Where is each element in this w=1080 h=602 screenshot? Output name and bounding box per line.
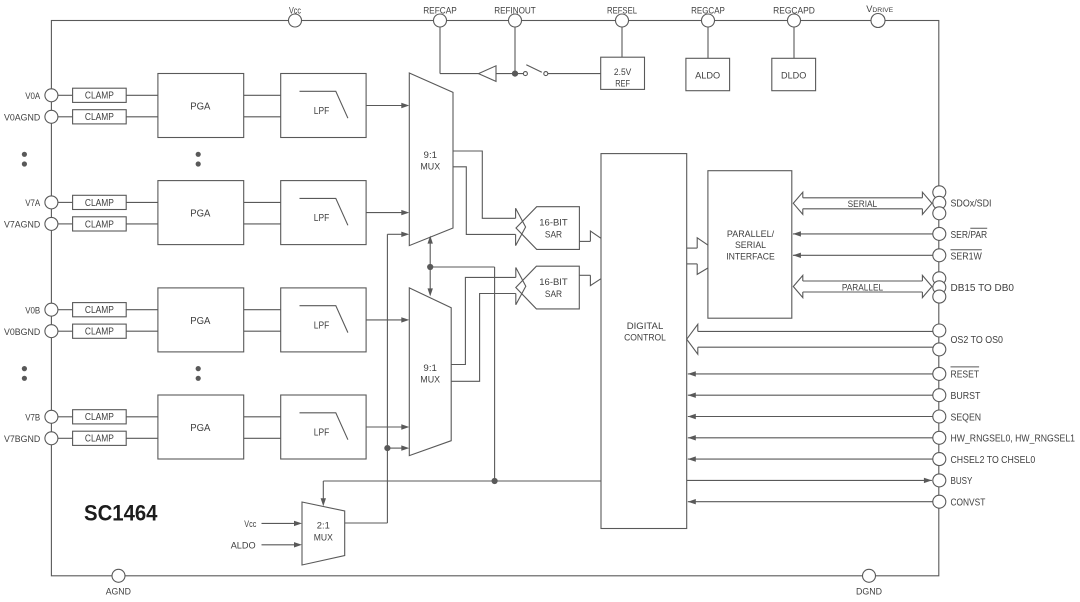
pin REFCAP (top): [423, 5, 457, 27]
pin REGCAPD (top): [773, 5, 815, 27]
wire 2:1 MUX output: [345, 522, 388, 524]
svg-text:PGA: PGA: [190, 102, 210, 113]
wire REGCAPD to DLDO: [793, 27, 795, 58]
junction REFINOUT node: [512, 71, 518, 77]
pin DGND: [856, 569, 882, 597]
wire V0AGND to clamp: [58, 116, 73, 118]
wire LPF channel 0A output to 9:1 MUX: [366, 105, 402, 107]
wire rail into 9:1 MUX A (9th input): [387, 233, 402, 235]
wire V7AGND to clamp: [58, 223, 73, 225]
svg-text:DIGITAL: DIGITAL: [627, 321, 664, 332]
svg-text:PGA: PGA: [190, 316, 210, 327]
LPF block channel 0B: [281, 288, 366, 352]
ellipsis dots between PGA B blocks: [196, 366, 201, 381]
switch lever: [526, 65, 542, 73]
wire buffer to junction: [496, 73, 523, 75]
wire BUSY row: [687, 479, 932, 481]
svg-text:CLAMP: CLAMP: [85, 198, 114, 209]
svg-text:HW_RNGSEL0, HW_RNGSEL1: HW_RNGSEL0, HW_RNGSEL1: [951, 434, 1076, 445]
wire LPF channel 0B output to 9:1 MUX: [366, 319, 402, 321]
pin SER/PAR: [933, 227, 987, 241]
svg-text:16-BIT: 16-BIT: [539, 217, 568, 228]
svg-text:Vcc: Vcc: [244, 519, 256, 530]
ADC 16-BIT SAR 2: [516, 266, 580, 309]
pin V7A: [25, 196, 58, 209]
flag connector SAR1 to digital control: [590, 231, 601, 241]
svg-text:REFINOUT: REFINOUT: [494, 5, 536, 16]
svg-text:CLAMP: CLAMP: [85, 91, 114, 102]
wire PGA to LPF (lower, V7BGND): [244, 437, 281, 439]
svg-text:V0A: V0A: [25, 91, 40, 102]
svg-text:CLAMP: CLAMP: [85, 434, 114, 445]
wire clamp V0BGND to PGA: [126, 330, 158, 332]
2:1 MUX: [302, 502, 345, 565]
PGA block channel 7A: [158, 181, 244, 245]
wire PGA to LPF (lower, V0BGND): [244, 330, 281, 332]
svg-text:BUSY: BUSY: [951, 476, 973, 487]
wire PGA to LPF (upper, V0B): [244, 309, 281, 311]
svg-text:MUX: MUX: [420, 161, 440, 172]
clamp block V7BGND: [73, 431, 127, 445]
wire drop into 2:1 MUX select: [322, 481, 324, 499]
pin V7AGND: [4, 217, 58, 230]
wire LPF channel 7A output to 9:1 MUX: [366, 212, 402, 214]
svg-text:CLAMP: CLAMP: [85, 112, 114, 123]
svg-text:9:1: 9:1: [424, 150, 438, 161]
svg-text:ALDO: ALDO: [231, 540, 256, 551]
svg-text:DLDO: DLDO: [781, 71, 806, 82]
svg-text:SAR: SAR: [545, 289, 562, 300]
wire clamp V0A to PGA: [126, 94, 158, 96]
wire LPF channel 7B output to 9:1 MUX: [366, 426, 402, 428]
svg-text:V7A: V7A: [25, 198, 40, 209]
junction node between MUXes: [427, 264, 433, 270]
svg-text:2:1: 2:1: [317, 521, 330, 531]
svg-text:REF: REF: [615, 78, 630, 89]
ALDO block: [686, 58, 730, 90]
svg-text:INTERFACE: INTERFACE: [726, 251, 775, 262]
wire MUX A output 1: [453, 151, 516, 218]
svg-text:PARALLEL: PARALLEL: [842, 283, 883, 293]
svg-text:SAR: SAR: [545, 230, 562, 241]
wire clamp V7B to PGA: [126, 416, 158, 418]
pin REGCAP (top): [691, 5, 725, 27]
wire clamp V0B to PGA: [126, 309, 158, 311]
svg-text:V7B: V7B: [25, 412, 40, 423]
wire vertical riser down: [494, 267, 496, 481]
9:1 MUX B (lower multiplexer): [409, 288, 451, 456]
wire PGA to LPF (upper, V7A): [244, 201, 281, 203]
ellipsis dots between V0A and V7A pins: [22, 152, 27, 167]
pin REFSEL (top): [607, 5, 638, 27]
ADC 16-BIT SAR 1: [516, 207, 579, 250]
reference buffer amplifier: [479, 66, 497, 82]
wire V0BGND to clamp: [58, 330, 73, 332]
svg-text:V0BGND: V0BGND: [4, 327, 40, 338]
wire PGA to LPF (lower, V0AGND): [244, 116, 281, 118]
wire 2:1 MUX output rail (vertical): [386, 234, 388, 523]
svg-text:2.5V: 2.5V: [614, 67, 632, 78]
svg-text:9:1: 9:1: [423, 363, 437, 374]
wire REFINOUT down: [514, 27, 516, 74]
wire MUX B output 2: [451, 294, 516, 382]
ellipsis dots between PGA A blocks: [196, 152, 201, 167]
wire REFCAP down: [439, 27, 441, 74]
PGA block channel 0A: [158, 74, 244, 138]
pin RESET: [933, 367, 979, 381]
svg-text:CLAMP: CLAMP: [85, 412, 114, 423]
svg-text:LPF: LPF: [314, 213, 330, 224]
pin AGND: [106, 569, 131, 597]
wire SAR1 output: [579, 240, 590, 242]
svg-text:REFSEL: REFSEL: [607, 5, 638, 16]
bus arrowhead into SAR1: [516, 208, 526, 245]
svg-text:LPF: LPF: [314, 106, 330, 117]
wire MUX A output 2: [453, 167, 516, 235]
pin SDOx/SDI (3 stacked): [933, 186, 992, 220]
wire ALDO into 2:1 MUX: [262, 544, 296, 546]
DLDO block: [772, 58, 816, 90]
flag connector SAR2 to digital control: [590, 275, 601, 285]
OS2 TO OS0 bus (hollow arrow into digital control): [687, 324, 933, 354]
svg-text:V7AGND: V7AGND: [4, 220, 40, 231]
wire switch to 2.5V REF: [548, 73, 601, 75]
wire PGA to LPF (upper, V7B): [244, 416, 281, 418]
clamp block V7B: [73, 410, 127, 424]
svg-text:16-BIT: 16-BIT: [539, 277, 568, 288]
svg-text:OS2 TO OS0: OS2 TO OS0: [951, 335, 1004, 346]
wire HW_RNGSEL row: [688, 437, 933, 439]
clamp block V0B: [73, 303, 127, 317]
PGA block channel 0B: [158, 288, 244, 352]
pin BUSY: [933, 474, 973, 487]
wire clamp V7BGND to PGA: [126, 437, 158, 439]
pin SEQEN: [933, 410, 981, 423]
clamp block V7AGND: [73, 217, 127, 231]
wire PGA to LPF (upper, V0A): [244, 94, 281, 96]
svg-text:REGCAPD: REGCAPD: [773, 5, 815, 16]
LPF block channel 7B: [281, 395, 366, 459]
wire V7BGND to clamp: [58, 437, 73, 439]
ellipsis dots between V0B and V7B pins: [22, 366, 27, 381]
svg-text:PGA: PGA: [190, 209, 210, 220]
wire V7A to clamp: [58, 201, 73, 203]
chip outline border: [51, 21, 938, 576]
wire V0B to clamp: [58, 309, 73, 311]
LPF block channel 7A: [281, 181, 366, 245]
svg-text:CONTROL: CONTROL: [624, 332, 666, 343]
svg-text:ALDO: ALDO: [695, 71, 720, 82]
wire CONVST row: [688, 501, 933, 503]
2.5V REF block: [601, 57, 645, 89]
svg-text:PGA: PGA: [190, 423, 210, 434]
PARALLEL/SERIAL INTERFACE block: [708, 171, 792, 319]
clamp block V0A: [73, 88, 127, 102]
svg-text:DB15 TO DB0: DB15 TO DB0: [951, 283, 1015, 294]
wire REFSEL to 2.5V REF: [621, 27, 623, 57]
wire BURST row: [688, 394, 933, 396]
svg-text:SERIAL: SERIAL: [848, 199, 878, 209]
pin V0BGND: [4, 325, 58, 338]
svg-text:CLAMP: CLAMP: [85, 219, 114, 230]
switch contact left: [523, 72, 527, 76]
svg-text:CLAMP: CLAMP: [85, 327, 114, 338]
svg-text:V0AGND: V0AGND: [4, 112, 40, 123]
svg-text:MUX: MUX: [420, 375, 440, 386]
svg-text:AGND: AGND: [106, 586, 131, 597]
svg-text:LPF: LPF: [314, 320, 330, 331]
pin DB15 TO DB0 (3 stacked): [933, 272, 1015, 303]
wire SEQEN row: [688, 416, 933, 418]
junction on control row: [492, 478, 498, 484]
wire clamp V7AGND to PGA: [126, 223, 158, 225]
pin CONVST: [933, 495, 986, 508]
svg-text:CLAMP: CLAMP: [85, 305, 114, 316]
clamp block V7A: [73, 195, 127, 209]
wire SER1W to interface: [793, 254, 933, 256]
wire node to vertical riser: [430, 266, 494, 268]
wire between MUX A and MUX B (double-headed): [428, 236, 433, 297]
svg-text:REGCAP: REGCAP: [691, 5, 725, 16]
wire RESET row: [688, 373, 933, 375]
svg-text:V0B: V0B: [25, 305, 40, 316]
svg-text:SC1464: SC1464: [84, 500, 158, 525]
svg-text:SEQEN: SEQEN: [951, 412, 982, 423]
svg-text:MUX: MUX: [314, 532, 333, 542]
pin SER1W: [933, 249, 983, 262]
clamp block V0AGND: [73, 110, 127, 124]
wire PGA to LPF (lower, V7AGND): [244, 223, 281, 225]
wire MUX B output 1: [451, 277, 516, 364]
wire V7B to clamp: [58, 416, 73, 418]
svg-text:CHSEL2 TO CHSEL0: CHSEL2 TO CHSEL0: [951, 455, 1036, 466]
bus arrowhead into SAR2: [516, 268, 526, 305]
pin Vcc (top): [289, 5, 302, 27]
wire rail into 9:1 MUX B (9th input): [387, 447, 402, 449]
pin V0A: [25, 89, 58, 102]
svg-text:BURST: BURST: [951, 391, 981, 402]
wire clamp V0AGND to PGA: [126, 116, 158, 118]
pin V7B: [25, 410, 58, 423]
pin BURST: [933, 389, 981, 402]
pin REFINOUT (top): [494, 5, 536, 27]
svg-text:REFCAP: REFCAP: [423, 5, 457, 16]
wire REFCAP to buffer: [440, 73, 479, 75]
svg-text:SER/PAR: SER/PAR: [951, 230, 988, 241]
flag connector digital control to interface (lower): [687, 264, 708, 275]
pin OS2 TO OS0 (2 stacked): [933, 324, 1004, 356]
wire CHSEL row: [688, 458, 933, 460]
pin CHSEL2 TO CHSEL0: [933, 453, 1036, 466]
svg-text:CONVST: CONVST: [951, 498, 986, 509]
wire SER/PAR to interface: [793, 233, 933, 235]
junction on rail at lower MUX branch: [384, 445, 390, 451]
switch contact right: [544, 72, 548, 76]
svg-text:RESET: RESET: [951, 370, 980, 381]
svg-text:Vcc: Vcc: [289, 5, 301, 16]
svg-text:SERIAL: SERIAL: [735, 240, 767, 251]
svg-text:LPF: LPF: [314, 428, 330, 439]
PARALLEL bus (bidirectional hollow arrow): [793, 275, 932, 297]
wire control row horizontal: [323, 480, 601, 482]
pin V7BGND: [4, 432, 58, 445]
svg-text:SDOx/SDI: SDOx/SDI: [951, 199, 992, 210]
svg-text:SER1W: SER1W: [951, 251, 983, 262]
9:1 MUX A (top multiplexer): [409, 73, 453, 246]
svg-text:VDRIVE: VDRIVE: [866, 4, 893, 14]
svg-text:V7BGND: V7BGND: [4, 434, 40, 445]
pin V0B: [25, 303, 58, 316]
pin V0AGND: [4, 110, 58, 123]
SERIAL bus (bidirectional hollow arrow): [793, 192, 932, 214]
pin VDRIVE (top): [866, 4, 893, 27]
DIGITAL CONTROL block: [601, 154, 687, 529]
flag connector digital control to interface (upper): [687, 238, 708, 248]
pin HW_RNGSEL0, HW_RNGSEL1: [933, 431, 1075, 444]
wire clamp V7A to PGA: [126, 201, 158, 203]
clamp block V0BGND: [73, 324, 127, 338]
wire V0A to clamp: [58, 94, 73, 96]
wire SAR2 output: [579, 274, 590, 276]
svg-text:DGND: DGND: [856, 586, 882, 597]
wire REGCAP to ALDO: [707, 27, 709, 58]
wire Vcc into 2:1 MUX: [262, 522, 296, 524]
svg-text:PARALLEL/: PARALLEL/: [727, 229, 775, 240]
LPF block channel 0A: [281, 74, 366, 138]
PGA block channel 7B: [158, 395, 244, 459]
